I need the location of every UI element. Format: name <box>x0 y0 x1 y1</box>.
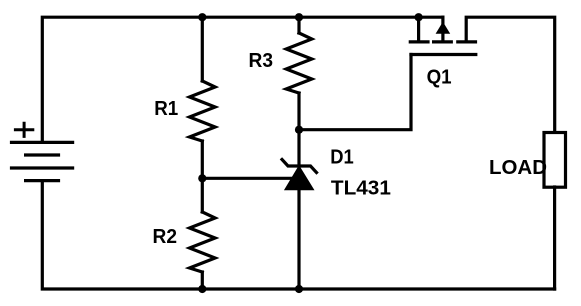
wire TL431 reference from R1/R2 junction <box>202 177 296 180</box>
svg-text:TL431: TL431 <box>331 177 391 199</box>
svg-text:R2: R2 <box>153 226 178 248</box>
transistor Q1 gate line <box>411 53 476 56</box>
transistor Q1 source stub <box>417 17 420 42</box>
wire load bottom <box>553 187 556 289</box>
svg-text:R3: R3 <box>249 50 274 72</box>
svg-text:R1: R1 <box>154 98 178 120</box>
node junction R3/D1/gate <box>295 126 303 134</box>
transistor Q1 drain contact bar <box>458 40 476 43</box>
node junction top of R3 <box>295 13 303 21</box>
transistor Q1 body stub <box>441 17 444 42</box>
node junction top of R1 <box>198 13 206 21</box>
transistor Q1 body contact bar <box>434 40 452 43</box>
battery plus label <box>15 123 32 136</box>
resistor R2 <box>190 212 216 272</box>
resistor LOAD box <box>544 133 566 188</box>
wire battery negative down to bottom-left corner and bottom rail <box>42 181 554 289</box>
battery B1 <box>12 142 73 180</box>
transistor Q1 body arrow <box>436 22 451 34</box>
svg-text:D1: D1 <box>330 146 354 168</box>
transistor Q1 source contact bar <box>410 40 428 43</box>
wire R3 top lead <box>297 17 300 33</box>
wire R1 top lead <box>201 17 204 81</box>
diode D1 TL431 cathode bar <box>282 160 317 173</box>
wire R2 bottom lead <box>201 272 204 289</box>
wire R3 bottom lead <box>297 93 300 130</box>
wire gate feedback from R3 junction right and up to Q1 gate <box>299 55 411 130</box>
resistor R3 <box>286 33 312 93</box>
wire R1 bottom lead <box>201 141 204 178</box>
node junction Q1 source <box>415 13 423 21</box>
svg-text:LOAD: LOAD <box>489 157 547 179</box>
resistor R1 <box>190 81 216 141</box>
wire Q1 drain to load top <box>466 17 555 131</box>
wire top rail from battery positive up and across to Q1 source corner <box>42 17 443 142</box>
wire D1 cathode lead <box>297 130 300 166</box>
node junction D1 bottom <box>295 285 303 293</box>
diode D1 TL431 anode triangle <box>285 166 314 190</box>
svg-text:Q1: Q1 <box>427 66 452 88</box>
wire D1 anode lead <box>297 190 300 289</box>
node junction R2 bottom <box>198 285 206 293</box>
wire R2 top lead <box>201 178 204 212</box>
node junction R1/R2 <box>198 174 206 182</box>
